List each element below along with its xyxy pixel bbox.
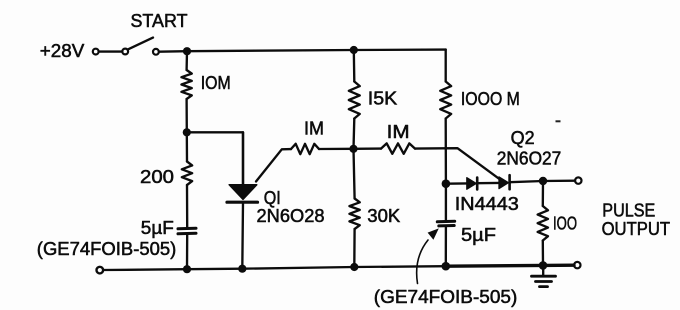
transistor Q2 cathode bar — [508, 175, 511, 189]
transistor Q1 cathode lead — [241, 202, 244, 269]
node H: Q1 cathode rail junction — [238, 265, 246, 273]
node F: output junction top — [539, 177, 547, 185]
svg-text:OUTPUT: OUTPUT — [602, 218, 671, 239]
resistor R1 10M — [181, 70, 191, 99]
svg-text:I5K: I5K — [368, 87, 398, 108]
node C: 10M / 200 / Q1-anode junction — [183, 128, 191, 136]
terminal +28V — [93, 49, 99, 55]
bottom rail wire right (thick) — [446, 265, 574, 266]
lead 200 top — [186, 132, 189, 161]
transistor Q2 2N6027 triangle — [499, 177, 508, 189]
wire D1 to Q2 anode — [477, 182, 499, 185]
ground lead — [542, 265, 544, 275]
transistor Q1 cathode bar — [227, 201, 258, 204]
svg-text:5µF: 5µF — [461, 224, 496, 245]
capacitor C2 5uF plate bottom — [439, 224, 454, 227]
node I: 30K rail junction — [350, 263, 358, 271]
wire node F to output terminal — [543, 180, 575, 183]
lead 15K bottom — [352, 119, 355, 149]
lead 1000M top — [445, 50, 447, 82]
lead 10M top — [185, 51, 188, 70]
svg-text:IOM: IOM — [201, 72, 231, 93]
node K: ground rail junction — [539, 261, 548, 270]
resistor R5 30K — [349, 199, 359, 230]
wire +28V terminal to switch pole — [99, 50, 123, 52]
callout arrow to C2 — [417, 240, 428, 284]
lead 30K bottom — [353, 229, 356, 267]
lead 100 bottom — [542, 241, 545, 266]
svg-text:(GE74FOIB-505): (GE74FOIB-505) — [374, 286, 518, 307]
capacitor C1 5uF plate top — [178, 227, 196, 231]
svg-text:START: START — [131, 10, 188, 31]
lead node E to C2 — [445, 184, 447, 222]
node G: C1 bottom rail junction — [183, 265, 191, 273]
node E: cap/diode junction — [442, 179, 451, 188]
wire 1M-right to Q2 gate bend — [415, 148, 499, 178]
resistor R3 1M (left) — [291, 144, 319, 154]
scan speck — [556, 120, 561, 122]
wire Q2 cathode to node F — [510, 181, 543, 182]
wire 1M-left to node D — [319, 148, 354, 151]
terminal pulse output bottom — [574, 262, 580, 268]
resistor R7 1000M — [440, 82, 451, 119]
switch START blade — [128, 38, 153, 50]
wire node C to Q1 anode — [187, 132, 243, 184]
diode D1 cathode bar — [476, 178, 479, 190]
resistor R6 1M (right) — [381, 143, 415, 153]
lead 30K top — [354, 149, 355, 199]
svg-text:(GE74FOIB-505): (GE74FOIB-505) — [37, 238, 177, 259]
lead 1000M bottom to node E — [445, 119, 448, 184]
svg-text:5µF: 5µF — [141, 217, 174, 238]
terminal pulse output top — [575, 177, 581, 183]
node J: C2 rail junction — [442, 262, 451, 271]
node A: top rail left junction — [183, 47, 191, 55]
diode D1 1N4443 triangle — [467, 178, 476, 190]
lead 10M bottom — [185, 99, 188, 132]
svg-text:2N6O28: 2N6O28 — [257, 205, 325, 226]
switch START pole contact — [122, 49, 128, 55]
ground symbol — [532, 276, 556, 286]
terminal bottom left — [97, 267, 104, 274]
lead 100 top — [542, 181, 545, 206]
svg-text:IM: IM — [304, 118, 324, 139]
resistor R8 100 — [538, 206, 548, 241]
svg-text:2N6O27: 2N6O27 — [497, 148, 562, 169]
switch START throw contact — [153, 49, 159, 55]
transistor Q1 2N6028 triangle — [229, 185, 257, 200]
lead 15K top — [353, 50, 356, 82]
lead C1 to bottom rail — [186, 234, 189, 269]
resistor R4 15K — [349, 82, 360, 119]
transistor Q1 2N6028 anode lead — [242, 132, 244, 184]
svg-text:+28V: +28V — [40, 40, 85, 61]
svg-text:30K: 30K — [367, 205, 401, 226]
svg-text:IOO: IOO — [553, 213, 577, 234]
lead C2 to bottom rail — [445, 226, 447, 266]
svg-text:IM: IM — [387, 121, 410, 142]
capacitor C1 5uF plate bottom — [178, 232, 196, 236]
node D: divider junction 15K/30K/1M — [349, 145, 357, 153]
wire switch to node A — [159, 50, 187, 53]
wire node D to 1M-right — [354, 147, 382, 150]
resistor R2 200 — [182, 162, 192, 186]
bottom rail wire left — [103, 266, 446, 270]
node B: 15K top junction — [350, 46, 358, 54]
svg-text:200: 200 — [140, 166, 174, 187]
transistor Q1 gate wire — [256, 149, 291, 181]
lead 200 bottom — [186, 185, 189, 228]
top rail wire — [187, 50, 446, 52]
svg-text:IOOO M: IOOO M — [461, 88, 520, 109]
svg-text:IN4443: IN4443 — [455, 193, 519, 214]
wire node E to diode D1 — [446, 182, 467, 185]
svg-text:Q2: Q2 — [511, 127, 535, 148]
capacitor C2 5uF plate top — [437, 220, 454, 224]
